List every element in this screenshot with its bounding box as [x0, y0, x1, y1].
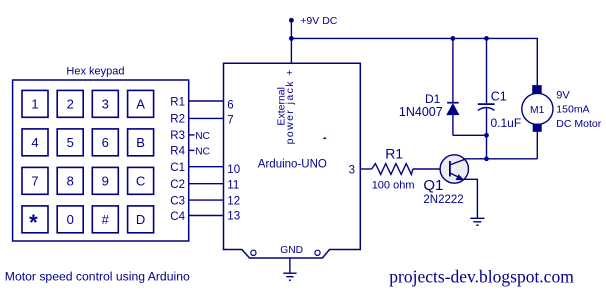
capacitor C1 bottom wire [486, 108, 488, 159]
key 2 [57, 90, 83, 117]
resistor R1 zigzag [372, 164, 413, 175]
collector bus wire [465, 158, 537, 160]
motor bottom wire [536, 131, 538, 159]
svg-text:100 ohm: 100 ohm [372, 180, 415, 192]
motor M1 bottom terminal [533, 124, 541, 131]
ground bar3 [476, 224, 478, 226]
transistor Q1 collector line [451, 159, 466, 165]
svg-text:A: A [136, 97, 145, 112]
key 8 [57, 167, 83, 194]
svg-text:B: B [136, 135, 145, 150]
svg-text:7: 7 [31, 174, 38, 189]
svg-text:R1: R1 [170, 96, 185, 108]
diode D1 cathode bar [447, 102, 459, 104]
+9V wire stub into power jack [290, 20, 292, 63]
svg-text:9V: 9V [556, 89, 570, 101]
arduino ground bar2 [286, 276, 293, 278]
wire diode bottom to cap [453, 134, 487, 136]
Arduino-UNO box U1 [224, 63, 361, 258]
svg-text:11: 11 [227, 180, 239, 192]
diode D1 bottom wire [452, 115, 454, 136]
arduino ground bar1 [283, 272, 296, 274]
svg-text:9: 9 [102, 174, 109, 189]
wire C2 to pin11 [189, 183, 224, 185]
wire R4 NC stub [189, 149, 195, 151]
svg-text:*: * [29, 210, 38, 235]
svg-text:C3: C3 [170, 195, 185, 207]
motor M1 top terminal [533, 86, 541, 94]
svg-text:Motor speed control using Ardu: Motor speed control using Arduino [5, 270, 190, 284]
key 6 [92, 129, 118, 156]
svg-text:0.1uF: 0.1uF [491, 116, 522, 130]
transistor Q1 emitter arrow [456, 174, 465, 180]
wire C1 to pin10 [189, 166, 224, 168]
key # [92, 206, 118, 233]
key 4 [22, 129, 48, 156]
svg-text:0: 0 [67, 212, 74, 227]
svg-text:5: 5 [67, 135, 74, 150]
svg-text:D1: D1 [425, 92, 441, 106]
key 9 [92, 167, 118, 194]
transistor Q1 base bar [449, 161, 451, 177]
svg-text:12: 12 [227, 196, 240, 208]
svg-text:C1: C1 [170, 162, 185, 174]
svg-text:6: 6 [227, 99, 233, 111]
svg-text:R3: R3 [170, 130, 185, 142]
svg-text:M1: M1 [530, 105, 545, 116]
wire R2 to pin7 [189, 117, 224, 119]
mounting hole left [251, 250, 256, 255]
junction dot diode-cap bottom [484, 133, 489, 138]
key C [128, 167, 154, 194]
svg-text:13: 13 [227, 211, 240, 223]
transistor Q1 circle [440, 155, 468, 183]
svg-text:4: 4 [31, 135, 38, 150]
capacitor C1 top wire [486, 38, 488, 104]
diode D1 triangle [447, 104, 459, 115]
capacitor C1 curved plate [478, 108, 495, 111]
arduino ground stem [289, 258, 291, 273]
junction dot diode top [451, 36, 456, 41]
svg-text:C: C [136, 174, 145, 189]
svg-text:NC: NC [195, 147, 210, 158]
svg-text:R2: R2 [170, 114, 185, 126]
svg-text:C1: C1 [491, 89, 507, 103]
svg-text:Q1: Q1 [423, 177, 443, 194]
capacitor C1 top plate [478, 103, 495, 105]
motor M1 circle [522, 93, 553, 124]
key A [128, 90, 154, 117]
svg-text:R1: R1 [385, 146, 403, 162]
svg-text:D: D [136, 212, 145, 227]
svg-text:C2: C2 [170, 179, 185, 191]
ground bar1 [470, 217, 484, 219]
svg-text:power jack +: power jack + [284, 68, 296, 144]
arduino ground bar3 [289, 279, 291, 281]
svg-text:7: 7 [227, 114, 233, 126]
svg-text:6: 6 [102, 135, 109, 150]
key * [22, 206, 48, 233]
junction dot collector bus [484, 156, 489, 161]
svg-text:projects-dev.blogspot.com: projects-dev.blogspot.com [389, 267, 574, 287]
svg-text:3: 3 [349, 165, 355, 177]
svg-text:1N4007: 1N4007 [399, 105, 443, 119]
wire R1 to pin6 [189, 100, 224, 102]
svg-text:1: 1 [31, 97, 38, 112]
svg-text:+9V DC: +9V DC [300, 15, 337, 27]
wire C4 to pin13 [189, 215, 224, 217]
svg-text:Arduino-UNO: Arduino-UNO [258, 159, 327, 171]
key D [128, 206, 154, 233]
key 0 [57, 206, 83, 233]
svg-text:2: 2 [67, 97, 74, 112]
svg-text:Hex keypad: Hex keypad [66, 66, 124, 78]
wire R3 NC stub [189, 134, 195, 136]
mounting hole right [315, 250, 320, 255]
diode D1 top wire [452, 38, 454, 102]
svg-text:10: 10 [227, 164, 240, 176]
svg-text:NC: NC [195, 131, 210, 142]
junction dot cap top [484, 36, 489, 41]
svg-text:C4: C4 [170, 211, 185, 223]
key 1 [22, 90, 48, 117]
svg-text:GND: GND [280, 245, 303, 256]
key 5 [57, 129, 83, 156]
stray dash mark [324, 138, 327, 140]
emitter wire [464, 179, 478, 218]
junction dot power rail [289, 36, 294, 41]
svg-text:8: 8 [67, 174, 74, 189]
wire C3 to pin12 [189, 199, 224, 201]
+9V rail wire [291, 38, 537, 86]
svg-text:DC Motor: DC Motor [556, 118, 601, 130]
key B [128, 129, 154, 156]
transistor Q1 emitter line [451, 173, 460, 177]
svg-text:150mA: 150mA [556, 104, 589, 116]
pin 3 wire [360, 168, 371, 170]
key 7 [22, 167, 48, 194]
svg-text:R4: R4 [170, 146, 185, 158]
svg-text:3: 3 [102, 97, 109, 112]
svg-text:2N2222: 2N2222 [423, 194, 463, 206]
keypad outer box [13, 80, 189, 241]
junction dot power top [289, 18, 294, 23]
ground bar2 [473, 221, 481, 223]
key 3 [92, 90, 118, 117]
wire resistor to base [413, 168, 450, 170]
svg-text:#: # [102, 212, 110, 227]
